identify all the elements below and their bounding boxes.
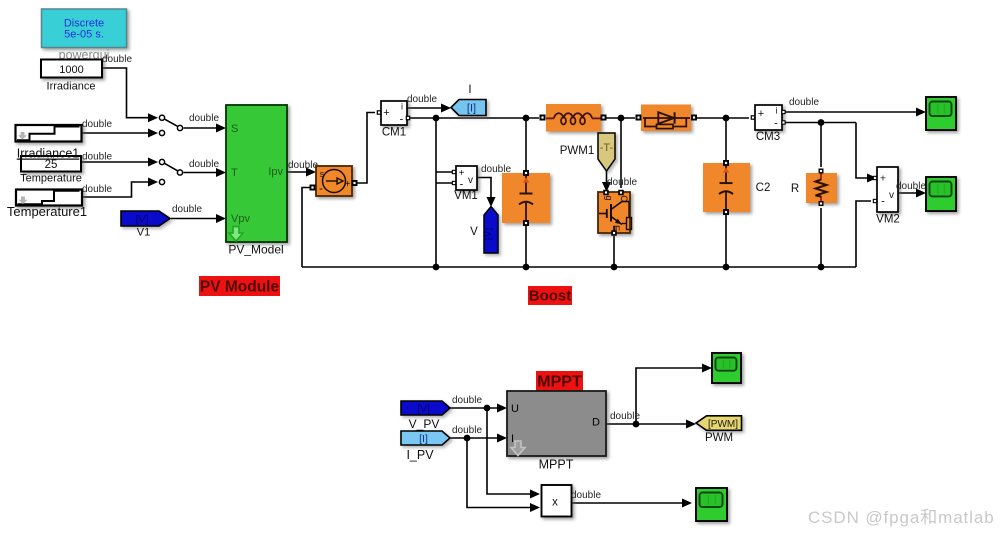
svg-text:x: x — [552, 497, 558, 509]
svg-text:Temperature1: Temperature1 — [7, 204, 87, 219]
svg-text:CM3: CM3 — [756, 131, 780, 143]
svg-text:double: double — [189, 113, 219, 124]
svg-text:PWM: PWM — [705, 432, 733, 444]
svg-text:-T-: -T- — [600, 142, 614, 154]
svg-text:double: double — [407, 94, 437, 105]
svg-text:+: + — [345, 179, 351, 190]
svg-text:U: U — [511, 403, 519, 415]
svg-text:I_PV: I_PV — [406, 448, 434, 462]
svg-text:MPPT: MPPT — [537, 374, 582, 391]
svg-text:I: I — [511, 433, 514, 445]
svg-text:double: double — [82, 152, 112, 163]
svg-text:[I]: [I] — [419, 433, 428, 445]
svg-text:PV Module: PV Module — [200, 279, 280, 296]
svg-text:PWM1: PWM1 — [560, 145, 595, 157]
svg-text:[V]: [V] — [136, 213, 149, 225]
svg-text:+: + — [383, 107, 389, 119]
svg-text:+: + — [758, 108, 764, 120]
svg-text:g: g — [604, 195, 614, 200]
svg-text:double: double — [82, 119, 112, 130]
svg-text:-: - — [460, 179, 464, 191]
svg-text:double: double — [172, 204, 202, 215]
svg-text:i: i — [776, 106, 778, 116]
svg-text:[I]: [I] — [467, 102, 476, 114]
svg-text:double: double — [452, 425, 482, 436]
svg-text:-: - — [774, 118, 778, 130]
svg-text:5e-05 s.: 5e-05 s. — [64, 29, 104, 41]
svg-text:double: double — [189, 159, 219, 170]
svg-text:-: - — [319, 181, 323, 195]
svg-text:Vpv: Vpv — [231, 213, 250, 225]
svg-text:I: I — [468, 84, 471, 96]
svg-text:Ipv: Ipv — [268, 166, 283, 178]
svg-text:double: double — [896, 181, 926, 192]
svg-text:CM1: CM1 — [382, 127, 406, 139]
svg-text:R: R — [791, 183, 799, 195]
svg-text:double: double — [481, 164, 511, 175]
svg-text:C2: C2 — [756, 182, 771, 194]
svg-text:D: D — [592, 417, 600, 429]
svg-text:V: V — [470, 226, 478, 238]
svg-text:T: T — [231, 167, 238, 179]
svg-text:V1: V1 — [137, 227, 150, 239]
svg-text:V_PV: V_PV — [409, 417, 440, 431]
svg-text:double: double — [102, 54, 132, 65]
svg-text:-: - — [881, 196, 885, 208]
svg-text:double: double — [288, 160, 318, 171]
svg-text:i: i — [401, 102, 403, 112]
svg-text:[V]: [V] — [483, 228, 494, 240]
svg-text:Irradiance: Irradiance — [47, 81, 96, 93]
svg-text:Boost: Boost — [529, 288, 572, 305]
svg-text:25: 25 — [45, 159, 58, 171]
svg-text:C: C — [619, 195, 629, 202]
svg-text:double: double — [610, 411, 640, 422]
svg-text:S: S — [231, 123, 238, 135]
svg-text:double: double — [571, 490, 601, 501]
svg-text:Temperature: Temperature — [20, 173, 82, 185]
svg-text:CSDN @fpga和matlab: CSDN @fpga和matlab — [808, 508, 995, 527]
svg-text:PV_Model: PV_Model — [228, 243, 283, 257]
svg-text:double: double — [789, 97, 819, 108]
svg-text:double: double — [607, 177, 637, 188]
svg-text:-: - — [400, 114, 404, 126]
svg-text:+: + — [459, 168, 465, 179]
svg-text:[V]: [V] — [417, 403, 430, 415]
svg-text:double: double — [452, 395, 482, 406]
svg-text:[PWM]: [PWM] — [708, 419, 738, 430]
svg-text:E: E — [611, 225, 621, 231]
svg-text:double: double — [82, 184, 112, 195]
svg-text:MPPT: MPPT — [539, 458, 574, 472]
svg-text:s: s — [320, 169, 325, 179]
svg-text:VM1: VM1 — [454, 190, 478, 202]
svg-text:+: + — [880, 173, 886, 185]
svg-text:v: v — [889, 190, 894, 201]
svg-text:v: v — [468, 175, 473, 186]
svg-text:1000: 1000 — [59, 64, 83, 76]
svg-text:VM2: VM2 — [876, 214, 900, 226]
